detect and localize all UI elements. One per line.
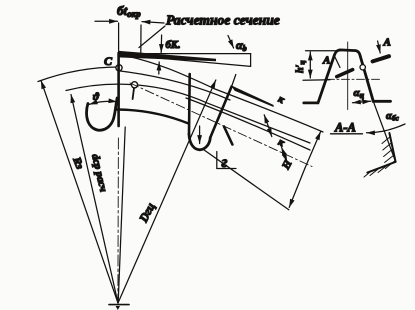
wire dimension line b t_okr right segment with left-pointing arrow [142,22,164,23]
left cutter tooth thick vertical flank [117,53,120,126]
wire shallow slant raschetnoe trace to alpha b box [119,55,251,67]
wire dimension line b t_okr left segment with right-pointing arrow [95,20,118,22]
dimension double arrow alpha u [352,101,361,104]
wire vertical dash-dot centerline [117,138,120,301]
wire leader from label Raschetnoe sechenie [139,26,165,48]
svg-text:A: A [383,37,391,49]
apex horizontal tick [109,304,129,306]
arc mean radius through second circle [66,84,310,143]
wire right flank extension line [373,101,395,162]
svg-text:ϑ: ϑ [93,91,100,103]
apex small down arrow [116,306,120,310]
arc just below C going right [120,71,230,100]
wire section arrow A pointing down [378,41,381,53]
wire curved arrow for alpha bc [367,124,406,133]
wire vertical centerline of A-A tooth [347,42,349,110]
dimension arrow r of fillet [199,126,201,144]
dimension arrow bK down [160,35,162,53]
right cutter tooth U bottom [189,134,210,150]
dimension k1 line with arrows [264,115,268,126]
wire cutting path line a from C [119,55,323,133]
svg-text:h′ц: h′ц [295,60,307,73]
wire line c lower slant [186,98,310,150]
thick cutting edge slash inside tooth [337,70,353,77]
wire extension line left of t_okr [118,23,120,56]
svg-text:αбс: αбс [386,111,399,123]
wire bottom reference line for h'u [303,79,330,82]
svg-text:C: C [104,54,113,68]
wire horizontal reference line for alpha b [119,53,251,55]
wire radial line R with arrow [41,81,118,304]
svg-text:Н: Н [280,158,295,172]
dimension k2 line with arrows [282,147,285,154]
svg-text:к: к [276,94,286,107]
wire horizontal dash-dot of A-A tooth [327,78,382,80]
svg-text:бК.: бК. [166,40,181,51]
svg-text:αц: αц [354,87,365,100]
wire small arrow to cutting edge mark [334,56,340,68]
wire radial line D gts with arrow [118,80,216,303]
svg-text:αb: αb [236,38,247,53]
workpiece corner edge lower [367,162,395,173]
thick arc between the two teeth [116,109,189,123]
svg-text:A-A: A-A [334,121,356,135]
dimension h'u vertical with two arrows [309,52,311,65]
node circle at second point [131,82,137,88]
wire extension line right of t_okr [140,25,142,56]
wire thin radial under left tooth [118,127,125,302]
dimension arrow bK up [158,62,160,74]
workpiece corner edge vertical [389,133,395,162]
dimension double arrow theta [89,101,117,104]
wire radial line d sr rasch with arrow [71,95,118,304]
wire top reference line for h'u [306,50,342,52]
wire slanted dash-dot pitch line [130,83,312,167]
wire leader arrow for alpha b [228,36,234,49]
svg-text:к: к [276,137,286,150]
hatching of workpiece corner [364,137,395,177]
node circle at point C [116,65,122,71]
thick section trace slash top right [373,56,389,61]
wire vertical closing line of alpha b box [250,54,252,67]
dimension H line with arrows [305,132,321,168]
wire short stub below second circle [133,88,134,99]
svg-text:Расчетное сечение: Расчетное сечение [166,13,280,28]
thick wedge along top from C [118,51,216,61]
svg-text:A: A [322,55,330,67]
A-A sectional tooth profile [304,50,391,103]
arc outer rim through point C [38,67,121,82]
right cutter tooth rake edge [210,87,231,138]
thick tapered blade top edge [231,85,274,107]
wire root line T3 [202,149,289,210]
thick stub below crossing [224,127,232,145]
wire thin tip extension of rake edge [232,75,236,87]
svg-text:Dгц: Dгц [136,200,158,225]
node label g fillet radius with corner leader [217,152,236,169]
svg-text:бtокр: бtокр [117,3,141,19]
node circle on right flank of A-A tooth [360,65,365,70]
left cutter tooth hook profile [87,98,118,130]
right cutter tooth left flank [188,74,191,134]
